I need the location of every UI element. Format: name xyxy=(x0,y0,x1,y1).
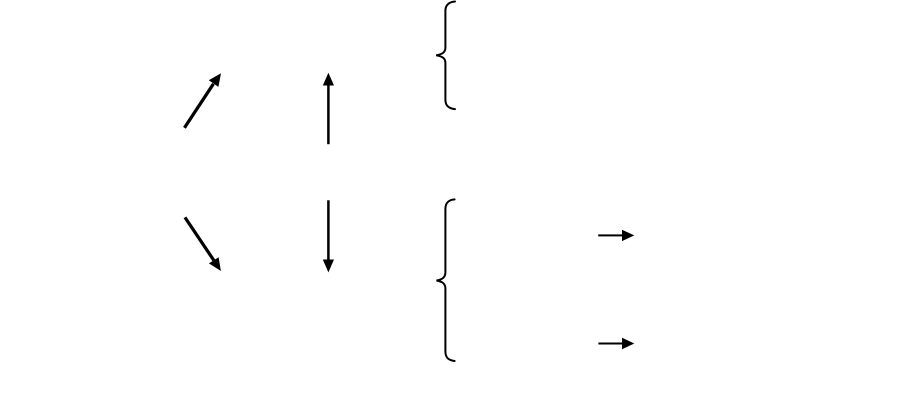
brace lower xyxy=(437,199,455,361)
brace upper xyxy=(436,2,455,110)
arrow right upper xyxy=(598,230,634,241)
arrow right lower xyxy=(598,338,634,349)
arrow up-right diagonal xyxy=(183,73,221,129)
arrow up vertical xyxy=(323,73,334,144)
arrow down vertical xyxy=(323,200,334,272)
arrow down-right diagonal xyxy=(184,217,221,272)
